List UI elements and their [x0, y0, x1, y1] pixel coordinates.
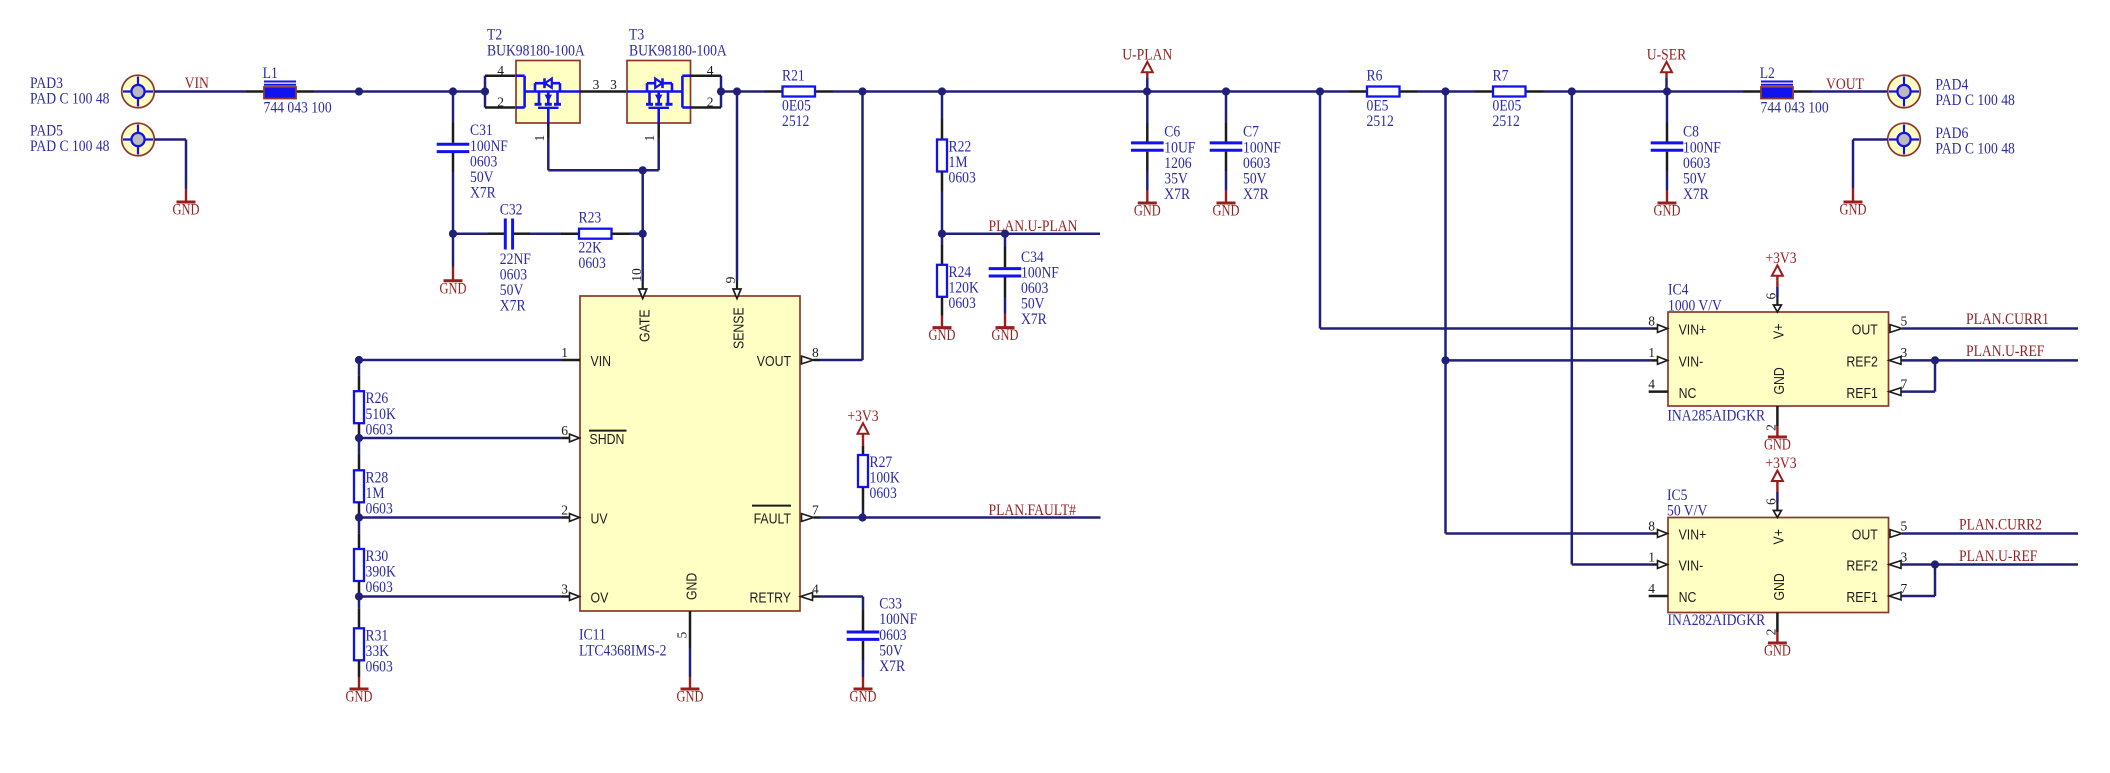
- svg-text:7: 7: [1901, 376, 1908, 391]
- wire T3 gate down: [657, 138, 660, 170]
- svg-text:OV: OV: [591, 590, 609, 607]
- resistor R24: [937, 265, 947, 297]
- wire C34 top lead: [1004, 234, 1007, 247]
- IC4 pin 3 REF2: [1889, 357, 1901, 365]
- wire to IC5 VIN+: [1446, 532, 1653, 535]
- svg-text:50V: 50V: [1243, 171, 1267, 188]
- svg-text:X7R: X7R: [1021, 311, 1047, 328]
- svg-text:8: 8: [812, 345, 819, 360]
- svg-text:X7R: X7R: [1164, 186, 1190, 203]
- svg-text:+3V3: +3V3: [1765, 455, 1796, 472]
- svg-text:R6: R6: [1367, 68, 1383, 85]
- supply U-PLAN supply: [1142, 62, 1153, 73]
- svg-text:0603: 0603: [1243, 155, 1271, 172]
- wire R23 to gate node: [612, 232, 630, 235]
- wire PAD6 to GND corner: [1853, 138, 1888, 141]
- wire node to R24: [941, 234, 944, 245]
- ground GND at PAD5: [185, 189, 187, 203]
- resistor R26: [354, 391, 364, 423]
- ground GND at C31: [452, 267, 454, 281]
- wire net PLAN.CURR2: [1902, 532, 2078, 535]
- pad PAD3: [122, 75, 155, 108]
- IC4 pin 5 OUT: [1890, 325, 1902, 333]
- svg-text:100K: 100K: [870, 470, 901, 487]
- svg-text:1000 V/V: 1000 V/V: [1668, 298, 1723, 315]
- svg-text:VIN+: VIN+: [1679, 322, 1707, 339]
- svg-text:50V: 50V: [1683, 171, 1707, 188]
- supply +3V3 at IC5: [1772, 471, 1783, 482]
- svg-text:IC4: IC4: [1668, 282, 1689, 299]
- junction VIN node: [355, 356, 363, 364]
- svg-text:2512: 2512: [1367, 113, 1394, 130]
- wire net PLAN.U-PLAN: [942, 232, 1100, 235]
- svg-text:U-SER: U-SER: [1647, 47, 1687, 64]
- svg-text:1: 1: [1648, 345, 1655, 360]
- wire rail to C6: [1146, 92, 1149, 124]
- svg-text:IC5: IC5: [1667, 487, 1688, 504]
- svg-text:3: 3: [1901, 345, 1908, 360]
- svg-text:VIN: VIN: [591, 353, 612, 370]
- svg-text:8: 8: [1648, 518, 1655, 533]
- svg-text:2: 2: [561, 502, 568, 517]
- wire R7 right sense to IC5 VIN-: [1571, 92, 1574, 565]
- wire sense tap to SENSE pin: [736, 92, 739, 282]
- supply +3V3 at R27: [858, 423, 869, 434]
- svg-text:1M: 1M: [949, 154, 968, 171]
- svg-text:22K: 22K: [579, 240, 603, 257]
- svg-text:R26: R26: [366, 390, 389, 407]
- junction SHDN node: [355, 434, 363, 442]
- junction gate/R23 node: [639, 230, 647, 238]
- svg-text:NC: NC: [1679, 385, 1697, 402]
- svg-text:PAD C 100 48: PAD C 100 48: [1935, 92, 2015, 109]
- svg-text:+3V3: +3V3: [1765, 250, 1796, 267]
- resistor R23: [579, 229, 612, 239]
- svg-text:2512: 2512: [782, 113, 809, 130]
- wire rail to C8: [1666, 92, 1669, 124]
- wire R28 bottom lead: [358, 502, 361, 517]
- svg-text:R7: R7: [1493, 68, 1509, 85]
- svg-text:PLAN.CURR2: PLAN.CURR2: [1959, 516, 2042, 533]
- junction PLAN.U-PLAN node: [938, 230, 946, 238]
- wire gate net to GATE pin: [641, 170, 644, 281]
- wire supply to rail: [1146, 77, 1149, 91]
- svg-text:V+: V+: [1771, 323, 1788, 339]
- pad PAD4: [1888, 75, 1921, 108]
- junction T3 pins 2-4: [717, 87, 725, 95]
- capacitor capacitor C6: [1131, 141, 1164, 144]
- wire R27 to FAULT net: [862, 487, 865, 510]
- svg-text:C7: C7: [1243, 124, 1259, 141]
- resistor R7 body: [1493, 87, 1526, 97]
- svg-text:0603: 0603: [470, 153, 498, 170]
- svg-text:GND: GND: [1840, 202, 1867, 219]
- wire C32 to R23: [514, 232, 530, 235]
- svg-text:NC: NC: [1679, 589, 1697, 606]
- capacitor capacitor C8: [1651, 141, 1684, 144]
- T2 pin 1 lead: [547, 123, 550, 138]
- capacitor capacitor C33: [847, 631, 880, 634]
- svg-text:0603: 0603: [1021, 280, 1049, 297]
- junction REF node IC4: [1931, 356, 1939, 364]
- capacitor capacitor C7: [1210, 141, 1243, 144]
- wire C33 to GND: [862, 641, 865, 660]
- svg-text:10UF: 10UF: [1164, 139, 1195, 156]
- svg-text:0603: 0603: [366, 659, 394, 676]
- svg-text:BUK98180-100A: BUK98180-100A: [487, 43, 585, 60]
- IC4 pin 7 REF1: [1889, 388, 1901, 396]
- svg-text:GND: GND: [1654, 203, 1681, 220]
- svg-text:C33: C33: [879, 596, 902, 613]
- wire R31 bottom lead: [358, 660, 361, 677]
- svg-text:0603: 0603: [579, 255, 607, 272]
- svg-text:4: 4: [1648, 581, 1655, 596]
- wire node to GND: [452, 234, 455, 267]
- svg-text:U-PLAN: U-PLAN: [1122, 47, 1172, 64]
- junction REF node IC5: [1931, 560, 1939, 568]
- svg-text:SHDN: SHDN: [590, 431, 625, 448]
- svg-text:VIN-: VIN-: [1679, 558, 1704, 575]
- wire R6 right sense to IC4 VIN-: [1444, 92, 1447, 534]
- svg-text:VIN-: VIN-: [1679, 354, 1704, 371]
- svg-text:6: 6: [1764, 498, 1779, 505]
- wire net U-SER rail: [1544, 90, 1744, 93]
- svg-text:50V: 50V: [470, 169, 494, 186]
- IC5 pin 2 GND: [1776, 613, 1779, 633]
- svg-text:V+: V+: [1771, 529, 1788, 545]
- svg-text:1: 1: [561, 345, 568, 360]
- svg-text:2: 2: [707, 95, 714, 110]
- svg-text:REF2: REF2: [1846, 354, 1877, 371]
- svg-text:X7R: X7R: [470, 185, 496, 202]
- transistor T3: [627, 61, 691, 124]
- wire R6 to R7: [1417, 90, 1475, 93]
- svg-text:33K: 33K: [366, 643, 390, 660]
- svg-text:+3V3: +3V3: [847, 408, 878, 425]
- svg-text:0E05: 0E05: [782, 97, 811, 114]
- wire R30 top lead: [358, 518, 361, 534]
- svg-text:GATE: GATE: [637, 309, 654, 342]
- svg-text:50V: 50V: [500, 282, 524, 299]
- svg-text:X7R: X7R: [500, 298, 526, 315]
- svg-text:0603: 0603: [366, 579, 394, 596]
- ground GND at C8: [1666, 190, 1668, 203]
- svg-text:LTC4368IMS-2: LTC4368IMS-2: [579, 643, 666, 660]
- svg-text:C34: C34: [1021, 249, 1044, 266]
- resistor R30: [354, 549, 364, 581]
- capacitor capacitor C34: [989, 267, 1022, 270]
- wire R26 bottom lead: [358, 423, 361, 438]
- op-amp controller IC11 body: [580, 296, 800, 611]
- svg-text:R24: R24: [949, 264, 972, 281]
- junction sense tap: [733, 87, 741, 95]
- svg-text:GND: GND: [173, 202, 200, 219]
- wire R6 left sense to IC4 VIN+: [1319, 92, 1322, 329]
- svg-text:GND: GND: [346, 689, 373, 706]
- resistor R22: [937, 140, 947, 172]
- svg-text:4: 4: [497, 63, 504, 78]
- wire net PLAN.FAULT#: [820, 516, 1101, 519]
- svg-text:UV: UV: [591, 511, 608, 528]
- wire rail to C31: [452, 92, 455, 124]
- svg-text:7: 7: [812, 502, 819, 517]
- svg-text:0E05: 0E05: [1493, 97, 1522, 114]
- svg-text:7: 7: [1901, 581, 1908, 596]
- svg-text:4: 4: [812, 581, 819, 596]
- IC5 pin 3 REF2: [1889, 561, 1901, 569]
- svg-text:X7R: X7R: [1683, 186, 1709, 203]
- svg-text:L2: L2: [1760, 65, 1775, 82]
- svg-text:PAD C 100 48: PAD C 100 48: [30, 91, 110, 108]
- T3 pin 1 lead: [657, 123, 660, 138]
- IC11 pin 7 FAULT: [802, 514, 814, 522]
- svg-text:OUT: OUT: [1852, 322, 1878, 339]
- IC11 pin 5 GND: [689, 611, 692, 648]
- wire R26 top lead: [358, 360, 361, 375]
- IC11 pin 2 UV: [359, 516, 562, 519]
- junction C34 tap: [1001, 230, 1009, 238]
- wire R31 top lead: [358, 597, 361, 609]
- svg-text:100NF: 100NF: [470, 138, 508, 155]
- wire supply to rail: [1665, 77, 1668, 91]
- svg-text:R23: R23: [579, 210, 602, 227]
- wire C31 node to C32: [453, 232, 488, 235]
- svg-text:744 043 100: 744 043 100: [1761, 100, 1829, 117]
- svg-text:T2: T2: [487, 27, 502, 44]
- ground GND at C7: [1225, 190, 1227, 203]
- IC4 pin 8 VIN+: [1658, 325, 1668, 333]
- svg-text:R30: R30: [366, 548, 389, 565]
- IC5 pin 4 NC: [1649, 595, 1668, 598]
- resistor R7: [1475, 90, 1493, 93]
- current sense amplifier IC5 body: [1668, 518, 1889, 613]
- IC5 pin 7 REF1: [1889, 592, 1901, 600]
- svg-text:50 V/V: 50 V/V: [1667, 502, 1708, 519]
- wire PAD5 to GND corner: [154, 138, 186, 141]
- svg-text:1M: 1M: [366, 485, 385, 502]
- svg-text:5: 5: [1901, 313, 1908, 328]
- wire net VIN: PAD3 to L1: [154, 90, 246, 93]
- wire T2 pin3 to T3 pin3: [580, 90, 627, 93]
- wire rail to C7: [1225, 92, 1228, 124]
- wire net PLAN.U-REF 2: [1902, 563, 2079, 566]
- svg-text:0603: 0603: [949, 295, 977, 312]
- svg-text:REF1: REF1: [1846, 589, 1877, 606]
- ground GND at C6: [1146, 190, 1148, 203]
- wire net VOUT to PAD4: [1812, 90, 1888, 93]
- wire net after L1 to T2: [314, 90, 485, 93]
- svg-text:GND: GND: [1771, 573, 1788, 600]
- svg-text:0603: 0603: [870, 485, 898, 502]
- svg-text:2512: 2512: [1493, 113, 1520, 130]
- svg-text:RETRY: RETRY: [750, 590, 792, 607]
- ground GND at IC5: [1776, 632, 1778, 643]
- svg-text:SENSE: SENSE: [731, 307, 748, 349]
- svg-text:C8: C8: [1683, 124, 1699, 141]
- junction rail / C6 column: [1143, 87, 1151, 95]
- svg-text:R31: R31: [366, 627, 389, 644]
- junction rail / C8 column: [1663, 87, 1671, 95]
- svg-text:GND: GND: [1213, 203, 1240, 220]
- svg-text:0E5: 0E5: [1367, 97, 1389, 114]
- svg-text:OUT: OUT: [1852, 527, 1878, 544]
- svg-text:50V: 50V: [1021, 296, 1045, 313]
- svg-text:0603: 0603: [1683, 155, 1711, 172]
- junction rail / T2 pins 2-4: [481, 87, 489, 95]
- IC5 pin 1 VIN-: [1658, 561, 1668, 569]
- IC11 pin 1 VIN: [359, 359, 562, 362]
- resistor R28: [354, 470, 364, 502]
- wire C8 to GND: [1666, 152, 1669, 171]
- svg-text:510K: 510K: [366, 406, 397, 423]
- junction rail / C7 column: [1222, 87, 1230, 95]
- svg-text:100NF: 100NF: [1243, 139, 1281, 156]
- svg-text:X7R: X7R: [1243, 186, 1269, 203]
- svg-text:PAD4: PAD4: [1935, 77, 1968, 94]
- svg-text:9: 9: [723, 276, 738, 283]
- svg-text:PLAN.FAULT#: PLAN.FAULT#: [989, 502, 1077, 519]
- svg-text:VOUT: VOUT: [757, 353, 791, 370]
- resistor R27: [858, 455, 868, 487]
- svg-text:5: 5: [675, 632, 690, 639]
- svg-text:INA282AIDGKR: INA282AIDGKR: [1668, 612, 1766, 629]
- wire REF2 to REF1: [1934, 360, 1937, 391]
- svg-text:VIN: VIN: [185, 75, 209, 92]
- capacitor C32: [504, 219, 507, 250]
- IC11 pin 8 VOUT: [802, 356, 814, 364]
- junction rail / IC5 VIN- column: [1568, 87, 1576, 95]
- svg-text:120K: 120K: [949, 279, 980, 296]
- transistor T2 pin bracket: [484, 76, 487, 108]
- T3 pin bracket: [720, 76, 723, 108]
- ground GND at IC4: [1776, 426, 1778, 437]
- wire T2 gate down: [547, 138, 550, 170]
- current sense amplifier IC4 body: [1668, 312, 1889, 406]
- svg-text:C31: C31: [470, 122, 493, 139]
- svg-text:C32: C32: [500, 202, 523, 219]
- svg-text:R28: R28: [366, 469, 389, 486]
- IC11 pin 3 OV: [359, 595, 562, 598]
- IC4 pin 4 NC: [1649, 390, 1668, 393]
- svg-text:GND: GND: [992, 327, 1019, 344]
- svg-text:6: 6: [1764, 293, 1779, 300]
- wire C7 to GND: [1225, 152, 1228, 171]
- IC5 pin 8 VIN+: [1658, 530, 1668, 538]
- svg-text:FAULT: FAULT: [754, 511, 791, 528]
- svg-text:T3: T3: [629, 27, 644, 44]
- wire net PLAN.U-REF: [1902, 359, 2079, 362]
- junction rail / IC4 VIN- column: [1441, 87, 1449, 95]
- junction OV node: [355, 592, 363, 600]
- svg-text:2: 2: [497, 95, 504, 110]
- svg-text:1: 1: [532, 135, 547, 142]
- junction rail / C31 column: [449, 87, 457, 95]
- svg-text:0603: 0603: [366, 501, 394, 518]
- svg-text:5: 5: [1901, 518, 1908, 533]
- wire gate horizontal: [548, 169, 658, 172]
- wire R24 to GND: [941, 297, 944, 316]
- wire C34 to GND: [1004, 277, 1007, 297]
- svg-text:1: 1: [1648, 549, 1655, 564]
- junction rail / IC4 VIN+ column: [1316, 87, 1324, 95]
- wire VOUT pin to rail: [861, 92, 864, 361]
- junction UV node: [355, 513, 363, 521]
- wire R28 top lead: [358, 438, 361, 455]
- IC11 pin 6 SHDN: [359, 437, 562, 440]
- svg-text:1206: 1206: [1164, 155, 1192, 172]
- svg-text:6: 6: [561, 423, 568, 438]
- svg-text:PLAN.U-REF: PLAN.U-REF: [1959, 548, 2038, 565]
- ground GND at R24: [941, 316, 943, 328]
- junction IC4 VIN- node: [1441, 356, 1449, 364]
- svg-text:3: 3: [610, 77, 617, 92]
- svg-text:3: 3: [561, 581, 568, 596]
- svg-text:35V: 35V: [1164, 171, 1188, 188]
- svg-text:0603: 0603: [500, 267, 528, 284]
- wire net VOUT rail: [833, 90, 1349, 93]
- svg-text:PLAN.CURR1: PLAN.CURR1: [1966, 311, 2049, 328]
- junction FAULT node: [858, 513, 866, 521]
- junction gate net: [639, 166, 647, 174]
- junction C31/C32/GND node: [449, 230, 457, 238]
- resistor R21: [765, 90, 783, 93]
- svg-text:100NF: 100NF: [879, 611, 917, 628]
- svg-text:PLAN.U-REF: PLAN.U-REF: [1966, 343, 2045, 360]
- ground GND at C33: [862, 677, 864, 689]
- IC11 pin 9 SENSE: [733, 289, 741, 299]
- wire R22 to node: [941, 172, 944, 192]
- supply +3V3 at IC4: [1772, 265, 1783, 276]
- pad PAD5: [122, 123, 155, 156]
- junction rail / VOUT column: [858, 87, 866, 95]
- svg-text:GND: GND: [1771, 367, 1788, 394]
- IC4 pin 2 GND: [1776, 406, 1779, 426]
- transistor T2: [516, 61, 580, 124]
- svg-text:PAD3: PAD3: [30, 75, 63, 92]
- svg-text:REF2: REF2: [1846, 558, 1877, 575]
- junction rail / R26 column: [355, 87, 363, 95]
- svg-text:VIN+: VIN+: [1679, 527, 1707, 544]
- svg-text:PAD C 100 48: PAD C 100 48: [30, 138, 110, 155]
- svg-text:R21: R21: [782, 68, 805, 85]
- inductor L2: [1743, 90, 1761, 93]
- svg-text:4: 4: [707, 63, 714, 78]
- resistor R6: [1349, 90, 1367, 93]
- svg-text:GND: GND: [929, 327, 956, 344]
- svg-text:GND: GND: [677, 689, 704, 706]
- wire RETRY to C33: [820, 595, 863, 598]
- wire T3 bracket to R21: [721, 90, 765, 93]
- svg-text:BUK98180-100A: BUK98180-100A: [629, 43, 727, 60]
- ground GND at PAD6: [1852, 188, 1854, 202]
- svg-text:VOUT: VOUT: [1826, 76, 1864, 93]
- IC4 pin 1 VIN-: [1658, 357, 1668, 365]
- svg-text:C6: C6: [1164, 124, 1180, 141]
- svg-text:0603: 0603: [879, 627, 907, 644]
- resistor R6 body: [1367, 87, 1400, 97]
- wire R30 bottom lead: [358, 581, 361, 597]
- svg-text:0603: 0603: [366, 421, 394, 438]
- svg-text:REF1: REF1: [1846, 385, 1877, 402]
- svg-text:1: 1: [642, 135, 657, 142]
- svg-text:GND: GND: [684, 573, 701, 600]
- wire rail to R22: [941, 92, 944, 120]
- svg-text:X7R: X7R: [879, 658, 905, 675]
- svg-text:3: 3: [1901, 549, 1908, 564]
- svg-text:PAD5: PAD5: [30, 123, 63, 140]
- svg-text:PAD6: PAD6: [1935, 125, 1968, 142]
- supply U-SER supply: [1661, 62, 1672, 73]
